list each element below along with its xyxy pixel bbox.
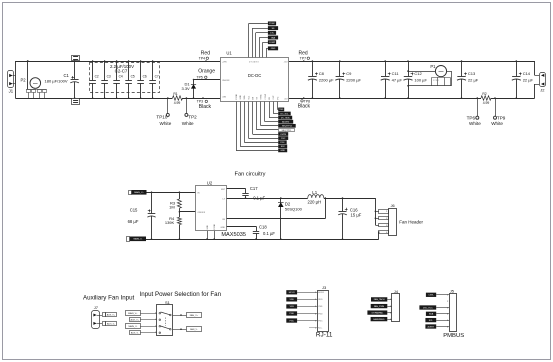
svg-text:N.C.: N.C. [318, 327, 322, 329]
svg-text:SEQ/TP11: SEQ/TP11 [282, 130, 293, 132]
svg-text:P1: P1 [430, 64, 436, 69]
svg-text:TP10: TP10 [156, 115, 167, 120]
svg-text:TP4: TP4 [199, 57, 205, 61]
svg-text:C12: C12 [414, 71, 422, 76]
svg-text:White: White [182, 121, 194, 126]
svg-text:2200 µF: 2200 µF [346, 78, 361, 83]
svg-text:Red: Red [201, 50, 210, 56]
svg-text:Auxiliary Fan Input: Auxiliary Fan Input [83, 295, 135, 302]
svg-text:MCLR: MCLR [289, 292, 295, 294]
svg-text:PGD: PGD [289, 313, 294, 315]
svg-text:SYNC: SYNC [269, 23, 275, 25]
svg-text:Fan Header: Fan Header [399, 220, 423, 225]
svg-text:AUX_V-: AUX_V- [107, 322, 115, 325]
svg-text:White: White [160, 121, 172, 126]
svg-text:OT/FANFAIL: OT/FANFAIL [371, 311, 384, 314]
svg-text:COMP: COMP [269, 42, 276, 44]
svg-text:C5: C5 [131, 74, 135, 78]
svg-text:VSS: VSS [290, 306, 295, 308]
svg-text:White: White [469, 121, 481, 126]
svg-text:White: White [491, 121, 503, 126]
svg-text:C6: C6 [143, 74, 147, 78]
svg-text:VDD: VDD [318, 299, 323, 301]
svg-text:47 µF: 47 µF [392, 78, 403, 83]
svg-text:SYNC: SYNC [261, 94, 263, 100]
svg-text:PGC: PGC [289, 320, 294, 322]
svg-text:TP2: TP2 [188, 115, 197, 120]
svg-text:DC-DC: DC-DC [248, 73, 262, 78]
svg-text:4.99: 4.99 [174, 101, 181, 105]
svg-text:Red: Red [299, 50, 308, 56]
svg-text:P2: P2 [21, 78, 27, 83]
svg-text:FANSPEED: FANSPEED [373, 318, 385, 321]
svg-text:ON/OFF: ON/OFF [222, 80, 230, 82]
svg-text:C9: C9 [346, 71, 352, 76]
svg-text:22 µF: 22 µF [523, 78, 534, 83]
svg-text:C13: C13 [468, 71, 476, 76]
svg-text:2200 µF: 2200 µF [319, 78, 334, 83]
svg-text:Black: Black [298, 104, 311, 110]
svg-text:2 9 4 6 8 3: 2 9 4 6 8 3 [249, 62, 259, 64]
svg-text:Input Power Selection for Fan: Input Power Selection for Fan [140, 291, 222, 298]
svg-text:C18: C18 [259, 224, 267, 229]
svg-text:L1: L1 [312, 190, 317, 195]
svg-text:VSS: VSS [318, 306, 323, 308]
svg-text:GND: GND [240, 95, 242, 100]
svg-text:MAIN_V+: MAIN_V+ [128, 312, 138, 315]
svg-text:SCL: SCL [248, 96, 250, 100]
svg-text:1 2 3 4: 1 2 3 4 [433, 80, 439, 82]
svg-text:FAN_TACH: FAN_TACH [374, 298, 385, 301]
svg-text:J6: J6 [391, 204, 395, 208]
svg-text:4.99: 4.99 [483, 101, 490, 105]
svg-text:100 µF: 100 µF [414, 78, 427, 83]
svg-text:22 µF: 22 µF [468, 78, 479, 83]
svg-text:2: 2 [155, 332, 156, 334]
svg-text:SEQ/TP12: SEQ/TP12 [282, 126, 293, 128]
svg-text:AUX_V+: AUX_V+ [131, 318, 140, 321]
svg-text:-VIN: -VIN [222, 97, 227, 99]
svg-text:RJ-11: RJ-11 [316, 331, 333, 338]
svg-text:-VO: -VO [284, 98, 288, 100]
svg-text:C2-C7: C2-C7 [115, 68, 128, 73]
svg-text:VDD: VDD [290, 299, 295, 301]
svg-text:Fan circuitry: Fan circuitry [235, 172, 266, 178]
svg-text:MAIN_V+: MAIN_V+ [134, 191, 144, 194]
svg-text:180 µF/100V: 180 µF/100V [45, 79, 68, 84]
svg-text:OVPN: OVPN [280, 134, 286, 136]
svg-text:C7: C7 [155, 74, 159, 78]
svg-text:PGC: PGC [318, 320, 323, 322]
svg-text:TP5: TP5 [197, 76, 203, 80]
svg-text:3: 3 [155, 313, 156, 315]
svg-text:GND: GND [207, 225, 209, 230]
svg-text:U1: U1 [226, 51, 232, 56]
svg-text:J1: J1 [9, 89, 14, 94]
svg-text:C8: C8 [319, 71, 325, 76]
svg-text:GND: GND [271, 48, 276, 50]
svg-text:COMP: COMP [265, 93, 267, 99]
svg-text:PGND: PGND [236, 93, 238, 99]
svg-text:50SQ100: 50SQ100 [285, 207, 303, 212]
svg-text:PGD: PGD [318, 313, 323, 315]
svg-text:C4: C4 [119, 74, 123, 78]
svg-text:Orange: Orange [198, 69, 215, 75]
svg-text:220 µH: 220 µH [308, 200, 322, 205]
svg-text:ADDR0: ADDR0 [282, 120, 290, 123]
svg-text:0.1 µF: 0.1 µF [263, 231, 275, 236]
svg-text:TBD: TBD [279, 109, 284, 111]
svg-text:SDA: SDA [429, 313, 434, 316]
svg-text:MAX5035: MAX5035 [221, 232, 246, 238]
svg-text:ALERT: ALERT [427, 325, 434, 328]
svg-text:C3: C3 [107, 74, 111, 78]
svg-text:C11: C11 [392, 71, 400, 76]
svg-text:FAN_V+: FAN_V+ [190, 314, 199, 317]
svg-text:R1: R1 [173, 92, 177, 96]
svg-text:AUX_V-: AUX_V- [131, 331, 139, 334]
svg-text:FAN_V-: FAN_V- [190, 328, 198, 331]
svg-text:I2C_SCL: I2C_SCL [280, 113, 289, 115]
svg-text:15 µF: 15 µF [351, 213, 362, 218]
svg-text:MAIN_V-: MAIN_V- [128, 325, 137, 328]
svg-text:GND: GND [280, 150, 285, 152]
svg-text:1M: 1M [169, 204, 175, 209]
svg-text:139K: 139K [165, 220, 175, 225]
svg-text:C1: C1 [64, 73, 70, 78]
svg-text:PMBUS: PMBUS [443, 333, 464, 339]
svg-text:MCLR: MCLR [318, 292, 324, 294]
svg-text:VAA: VAA [271, 36, 276, 39]
svg-text:C15: C15 [130, 208, 138, 213]
svg-text:CNTL: CNTL [428, 295, 434, 297]
svg-text:C17: C17 [250, 186, 258, 191]
svg-text:1: 1 [155, 326, 156, 328]
svg-text:ON/OFF: ON/OFF [198, 212, 206, 214]
svg-text:AUX_V+: AUX_V+ [107, 313, 116, 316]
svg-text:PGND: PGND [214, 223, 216, 229]
svg-text:C14: C14 [523, 71, 531, 76]
svg-text:I2C_SDA: I2C_SDA [281, 116, 290, 119]
svg-text:DGL_VCC: DGL_VCC [423, 307, 433, 309]
svg-text:TP7: TP7 [300, 57, 306, 61]
svg-text:FAN_PWM: FAN_PWM [374, 305, 385, 308]
svg-text:4: 4 [155, 319, 156, 321]
svg-text:+VO: +VO [283, 62, 288, 64]
svg-text:Black: Black [199, 104, 212, 110]
svg-text:+VIN: +VIN [222, 62, 227, 64]
svg-text:MAIN_V-: MAIN_V- [133, 238, 142, 241]
svg-text:TP3: TP3 [197, 100, 203, 104]
svg-text:0.1 µF: 0.1 µF [253, 195, 265, 200]
svg-text:C2: C2 [95, 74, 99, 78]
svg-text:3.3V: 3.3V [182, 86, 191, 91]
svg-text:U2: U2 [207, 181, 213, 186]
svg-text:S1: S1 [165, 300, 171, 305]
svg-text:68 µF: 68 µF [128, 219, 139, 224]
svg-text:R2: R2 [482, 92, 486, 96]
svg-text:GND: GND [221, 227, 226, 229]
